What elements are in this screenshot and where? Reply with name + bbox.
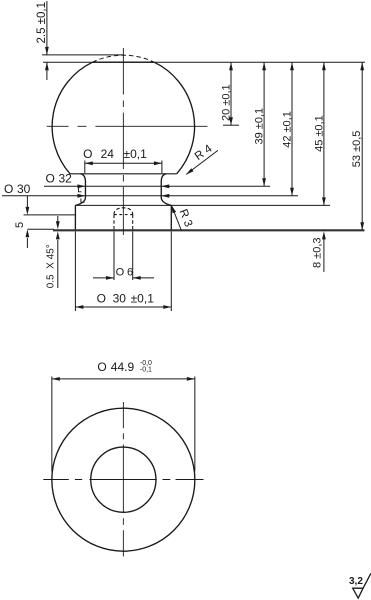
bottom view outer circle	[52, 408, 195, 551]
tick hook under 32 arrow	[79, 188, 82, 192]
hidden hole left wall	[113, 215, 115, 230]
tick hook under 30 arrow	[81, 198, 85, 202]
arrowhead 45 top	[322, 62, 326, 70]
svg-text:5: 5	[14, 222, 26, 228]
dimension 8 line	[323, 239, 325, 272]
ball flat top extension line	[43, 61, 365, 63]
horizontal centerline ball	[47, 125, 208, 127]
arrowhead R4	[186, 168, 194, 174]
arrowhead 53 top	[360, 62, 364, 70]
neck right profile with R4 and R3 fillets	[161, 174, 171, 206]
arrowhead 24 left	[85, 161, 93, 165]
arrowhead 5 top	[26, 207, 30, 215]
dimension 6 extension lines	[113, 232, 115, 281]
svg-text:O30: O30	[4, 182, 31, 196]
arrowhead 44.9 right	[187, 377, 195, 381]
hole bottom depth extension line	[24, 214, 76, 216]
ball outline right arc	[154, 62, 194, 174]
arrowhead 30 bottom left	[75, 305, 83, 309]
arrowhead 8 up	[322, 231, 326, 239]
bottom view horizontal centerline	[43, 479, 203, 481]
neck left profile with R4 and R3 fillets	[75, 174, 85, 206]
sphere cap dashed arc	[93, 55, 155, 62]
arrowhead 42 top	[290, 62, 294, 70]
svg-text:45 ±0,1: 45 ±0,1	[313, 115, 325, 152]
hidden hole dome arc	[114, 208, 133, 215]
dimension 44.9 line	[52, 378, 195, 380]
surface finish symbol	[353, 573, 371, 598]
arrowhead 39 bottom	[262, 178, 266, 186]
svg-text:39 ±0,1: 39 ±0,1	[254, 108, 266, 145]
base right side	[170, 205, 172, 230]
arrowhead 32 left	[77, 184, 85, 188]
dimension 30 bottom extension lines	[74, 232, 76, 312]
arrowhead 0.5 bottom	[56, 231, 60, 239]
dimension 5 line	[26, 196, 28, 211]
arrowhead 20 bottom	[229, 117, 233, 125]
svg-text:42 ±0,1: 42 ±0,1	[282, 111, 294, 148]
dimension 39 line	[263, 62, 265, 186]
arrowhead 2.5 top	[45, 47, 49, 55]
flange shelf edge	[70, 173, 177, 175]
hidden hole flat bottom	[114, 214, 133, 216]
hidden hole right wall	[132, 215, 134, 230]
arrowhead 0.5 top	[56, 221, 60, 229]
dimension 42 line	[291, 62, 293, 196]
base top edge and 45-dim extension line	[75, 204, 330, 206]
arrowhead R3	[171, 205, 176, 213]
dimension 2.5 line	[46, 1, 48, 55]
sphere theoretical top extension line	[42, 54, 124, 56]
arrowhead 20 top	[229, 62, 233, 70]
leader R4	[186, 150, 218, 174]
dimension 30 left line	[2, 195, 298, 197]
base left side	[74, 205, 76, 230]
dimension 45 line	[323, 62, 325, 205]
bottom view inner circle	[91, 447, 156, 512]
base bottom thin extension left	[27, 228, 54, 230]
arrowhead 44.9 left	[52, 377, 60, 381]
svg-text:-0,1: -0,1	[140, 367, 152, 374]
arrowhead 6 right	[133, 276, 141, 280]
dimension 24 line	[85, 162, 162, 164]
svg-text:20 ±0,1: 20 ±0,1	[221, 84, 233, 121]
bottom view vertical centerline	[122, 402, 124, 557]
dimension 53 line	[361, 62, 363, 230]
arrowhead 39 top	[262, 62, 266, 70]
arrowhead 30 left	[77, 194, 85, 198]
dimension 30 bottom line	[75, 306, 171, 308]
dimension 44.9 extension lines	[51, 377, 53, 472]
dimension 6 line	[93, 277, 114, 279]
svg-text:O32: O32	[46, 172, 73, 186]
ball outline left arc	[52, 62, 92, 174]
arrowhead 24 right	[154, 161, 162, 165]
dimension 32 line	[44, 185, 270, 187]
arrowhead 53 bottom	[360, 222, 364, 230]
svg-text:8 ±0,3: 8 ±0,3	[311, 237, 323, 268]
arrowhead 32 right	[161, 184, 169, 188]
svg-text:0.5 X 45°: 0.5 X 45°	[46, 244, 57, 288]
svg-text:O30±0,1: O30±0,1	[97, 292, 155, 306]
svg-text:53 ±0,5: 53 ±0,5	[351, 131, 363, 168]
arrowhead 30 right	[161, 194, 169, 198]
vertical centerline upper view	[122, 48, 124, 235]
dimension 20 line	[230, 62, 232, 125]
svg-text:3,2: 3,2	[349, 576, 363, 587]
base bottom thick line	[53, 229, 365, 231]
dimension 0.5x45 line	[57, 216, 59, 222]
arrowhead 45 bottom	[322, 197, 326, 205]
leader R3	[171, 205, 181, 231]
arrowhead 5 bottom	[26, 229, 30, 237]
arrowhead 30 bottom right	[163, 305, 171, 309]
arrowhead 2.5 bottom	[45, 62, 49, 70]
ball flat top edge	[93, 61, 155, 63]
arrowhead 42 bottom	[290, 188, 294, 196]
svg-text:2.5 ±0,1: 2.5 ±0,1	[36, 2, 48, 43]
arrowhead 6 left	[106, 276, 114, 280]
svg-text:O44.9: O44.9	[97, 360, 134, 374]
